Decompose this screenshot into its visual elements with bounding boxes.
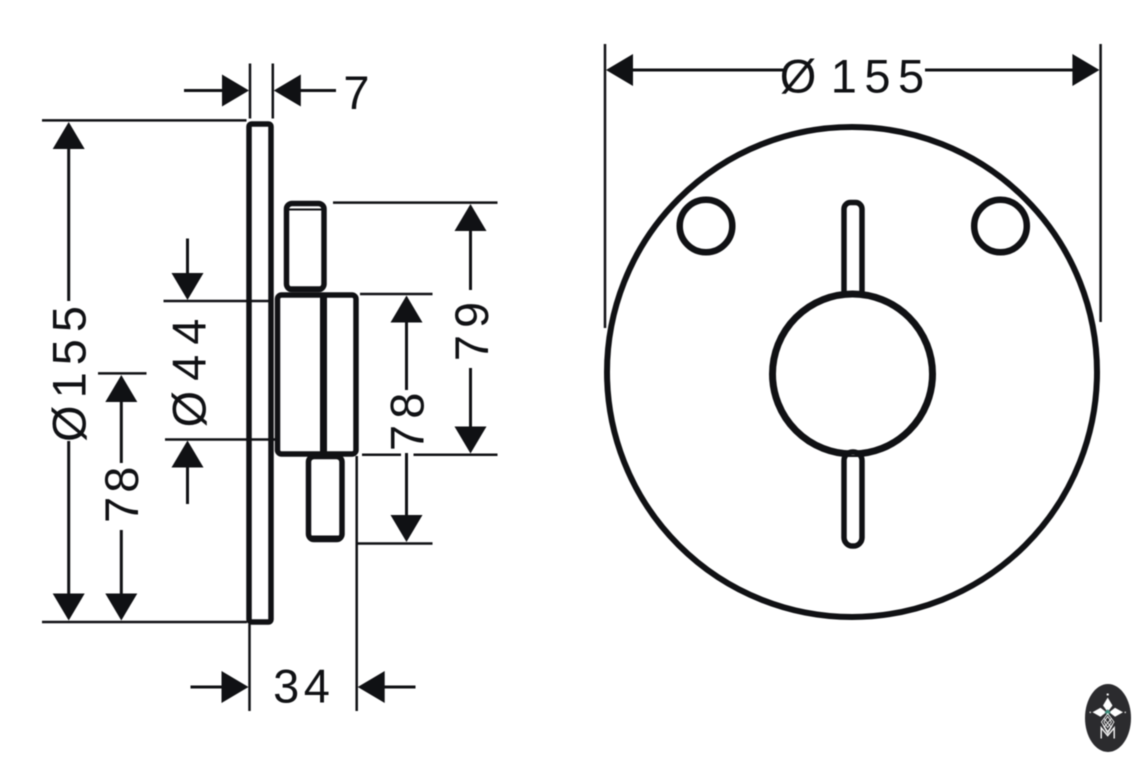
dimension 78 right: top arrow [391, 296, 423, 323]
dimension 34: left tail [191, 686, 224, 689]
dimension D44: lower arrow pointing up [172, 441, 204, 468]
dimension D155 left: bottom arrow [53, 594, 85, 621]
logo letter M [1101, 728, 1114, 739]
dimension D155 left: line lower segment [67, 441, 70, 596]
dimension 78 right: line lower segment [405, 453, 408, 516]
dimension 7: right arrow [274, 75, 301, 107]
dimension D44: upper arrow pointing down [172, 273, 204, 300]
dimension 34: right extension line [355, 456, 358, 711]
dimension D155 top: left arrow [606, 54, 633, 86]
dimension 79: line upper segment [469, 229, 472, 290]
dimension 7: right tail [300, 89, 336, 92]
slot upper bar closing line [846, 292, 860, 294]
dimension 34: right tail [384, 686, 416, 689]
dimension 78 left: top extension line [98, 372, 147, 375]
dimension 78 left: bottom arrow [105, 594, 137, 621]
side view: handle stem upper block [287, 204, 325, 290]
dimension 34: left extension line [248, 624, 251, 711]
svg-text:7: 7 [343, 66, 369, 119]
dimension 34: right arrow [358, 671, 385, 703]
dimension 79: bottom extension line [362, 454, 401, 457]
stem upper inner edge line [288, 209, 322, 211]
dimension 7: extension line right [272, 64, 275, 119]
dimension 78 left: line lower segment [120, 530, 123, 596]
logo flower left petal [1093, 708, 1107, 717]
svg-text:34: 34 [273, 660, 334, 713]
dimension D155 left: bottom extension line [42, 621, 247, 624]
logo flower right petal [1109, 708, 1123, 717]
sleeve divider line [320, 294, 327, 455]
dimension D155 top: right extension line [1099, 44, 1102, 322]
dimension 78 left: top arrow [105, 375, 137, 402]
dimension 78 right: top extension line [360, 293, 433, 296]
stem lower inner edge thin line [311, 536, 340, 538]
side view: sleeve body (D44) [278, 295, 357, 454]
dimension 34: left arrow [222, 671, 249, 703]
logo teal center [1105, 709, 1111, 715]
slot lower bar closing line [846, 455, 860, 457]
dimension 78 right: line upper segment [405, 321, 408, 391]
dimension 79: top arrow [455, 204, 487, 231]
front view: escutcheon circle D155 [607, 127, 1097, 617]
dimension 78 right: bottom extension line [356, 542, 433, 545]
front view: right screw hole [974, 200, 1027, 253]
dimension 78 right: bottom arrow [391, 515, 423, 542]
dimension 7: left arrow [222, 75, 249, 107]
svg-text:Ø155: Ø155 [780, 50, 932, 103]
logo lattice ornament [1101, 714, 1114, 734]
logo flower top petal [1103, 698, 1113, 713]
dimension 7: extension line left [249, 64, 252, 119]
dimension 79: line lower segment [469, 368, 472, 429]
front view: handle slot upper bar [844, 203, 862, 298]
dimension D155 top: left extension line [604, 44, 607, 328]
dimension D155 left: top extension line [42, 119, 247, 122]
side view: wall plate [249, 124, 271, 622]
dimension 7: left tail [184, 89, 223, 92]
svg-text:79: 79 [445, 295, 498, 361]
dimension D44: lower tail [186, 466, 189, 504]
dimension D44: upper tail [186, 239, 189, 276]
dimension D44: bottom extension line [165, 438, 277, 441]
side view: handle stem lower block [309, 457, 343, 540]
dimension D155 top: right arrow [1072, 54, 1099, 86]
logo flower side ticks [1090, 712, 1092, 714]
front view: left screw hole [680, 200, 733, 253]
dimension 78 left: line upper segment [120, 400, 123, 463]
svg-text:Ø155: Ø155 [43, 299, 96, 442]
dimension 79: top extension line [333, 201, 498, 204]
dimension D155 left: line upper segment [67, 147, 70, 301]
watermark logo ellipse [1085, 684, 1131, 752]
stem upper bottom edge thin line [287, 286, 324, 289]
logo flower top dot [1107, 694, 1109, 696]
dimension D155 top: line left segment [630, 69, 786, 72]
front view: knob circle [773, 294, 933, 454]
front view: handle slot lower bar [844, 452, 862, 546]
svg-text:78: 78 [380, 387, 433, 451]
dimension 79: bottom arrow [455, 427, 487, 454]
dimension D44: top extension line [164, 300, 271, 303]
dimension D155 left: top arrow [53, 122, 85, 149]
svg-text:Ø44: Ø44 [162, 309, 215, 428]
svg-text:78: 78 [95, 463, 148, 523]
dimension D155 top: line right segment [925, 69, 1074, 72]
